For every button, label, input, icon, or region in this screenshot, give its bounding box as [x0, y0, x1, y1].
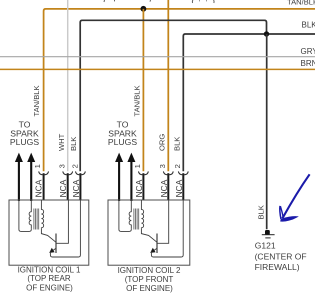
- coil1 core: [34, 209, 39, 230]
- svg-text:3: 3: [57, 164, 66, 168]
- annotation blue arrow: [280, 174, 310, 221]
- svg-text:1: 1: [133, 164, 142, 168]
- svg-text:(TOP FRONT: (TOP FRONT: [125, 275, 174, 284]
- connector pin stub coil2 pin1: [142, 173, 144, 200]
- connector symbol coil2 pin1: [139, 171, 149, 174]
- svg-text:FIREWALL): FIREWALL): [255, 262, 300, 272]
- svg-text:BLK: BLK: [69, 137, 78, 151]
- svg-text:IGNITION COIL 2: IGNITION COIL 2: [118, 266, 181, 275]
- node junction dot BLK: [264, 31, 269, 36]
- connector pin stub coil1 pin3: [67, 173, 69, 200]
- svg-text:NCA: NCA: [174, 179, 184, 197]
- connector pin stub coil1 pin2: [79, 173, 81, 200]
- coil2 transistor Q2 collector wire: [141, 229, 157, 243]
- svg-text:NCA: NCA: [34, 179, 44, 197]
- connector symbol coil2 pin2: [178, 171, 188, 174]
- node junction dot on TAN/BLK bus: [141, 6, 147, 12]
- wire BLK from coil 2 pin 2 joining junction, to right edge: [183, 34, 315, 171]
- coil1 transistor Q1 bar: [55, 234, 57, 254]
- connector symbol coil2 pin3: [163, 171, 173, 174]
- svg-text:PLUGS: PLUGS: [108, 137, 137, 147]
- svg-text:TAN/BLK: TAN/BLK: [32, 85, 41, 116]
- connector pin stub coil1 pin1: [43, 173, 45, 200]
- coil1 transistor Q1 emitter with arrow: [52, 248, 56, 251]
- svg-text:TAN/BLK: TAN/BLK: [132, 85, 141, 116]
- svg-text:IGNITION COIL 1: IGNITION COIL 1: [18, 265, 81, 274]
- svg-text:BLK: BLK: [172, 137, 181, 151]
- coil1 secondary winding: [29, 200, 31, 229]
- coil2 transistor Q2 base wire to pin3: [157, 200, 169, 243]
- svg-text:NCA: NCA: [71, 179, 81, 197]
- svg-text:TAN/BLK: TAN/BLK: [287, 0, 315, 6]
- svg-text:BRN: BRN: [301, 59, 316, 68]
- coil2 transistor Q2 bar: [156, 234, 158, 254]
- wire BLK vertical down to ground G121: [266, 34, 268, 229]
- svg-text:2: 2: [70, 164, 79, 168]
- coil1 emitter wire to pin2: [50, 200, 80, 257]
- coil1 transistor Q1 collector wire: [41, 229, 56, 243]
- coil2 secondary winding: [129, 200, 131, 229]
- svg-text:NCA: NCA: [134, 179, 144, 197]
- coil2 secondary lead wire (left, to spark arrows): [119, 200, 131, 231]
- coil1 transistor Q1 base wire to pin3: [56, 200, 68, 243]
- coil1 primary winding: [41, 200, 43, 229]
- coil1 secondary lead wire (left, to spark arrows): [19, 200, 31, 231]
- clipped text remnants at top edge: [104, 0, 214, 3]
- coil2 core: [134, 209, 139, 230]
- wire BLK from coil 1 pin 2 to right bus: [80, 20, 266, 171]
- svg-text:3: 3: [158, 164, 167, 168]
- ground G121 symbol: [265, 230, 270, 235]
- svg-text:GRY: GRY: [301, 47, 316, 56]
- connector symbol coil1 pin2: [76, 171, 86, 174]
- wire TAN/BLK drop to coil 2 pin 1: [142, 9, 144, 171]
- coil2 emitter wire to pin2: [151, 200, 183, 257]
- coil2 primary winding: [141, 200, 143, 229]
- spark plug arrow 1 (coil 1): [15, 153, 23, 201]
- svg-text:(TOP REAR: (TOP REAR: [27, 274, 70, 283]
- connector pin stub coil2 pin2: [182, 173, 184, 200]
- svg-text:NCA: NCA: [58, 179, 68, 197]
- svg-text:OF ENGINE): OF ENGINE): [126, 284, 173, 293]
- svg-text:2: 2: [173, 164, 182, 168]
- ignition coil 2 box: [108, 200, 190, 265]
- coil2 transistor Q2 emitter with arrow: [153, 248, 157, 251]
- svg-text:G121: G121: [255, 240, 276, 250]
- svg-text:1: 1: [33, 164, 42, 168]
- connector symbol coil1 pin3: [63, 171, 73, 174]
- svg-text:BLK: BLK: [302, 21, 316, 30]
- svg-text:(CENTER OF: (CENTER OF: [255, 252, 307, 262]
- ignition coil 1 box: [9, 200, 89, 265]
- svg-text:ORG: ORG: [157, 134, 166, 151]
- svg-text:WHT: WHT: [57, 133, 66, 151]
- svg-text:BLK: BLK: [256, 205, 265, 219]
- wire GRY bus: [0, 56, 315, 58]
- svg-text:PLUGS: PLUGS: [10, 137, 39, 147]
- wire TAN/BLK bus (orange, top): [44, 9, 315, 171]
- spark plug arrow 2 (coil 2): [127, 153, 135, 201]
- connector pin stub coil2 pin3: [167, 173, 169, 200]
- wire WHT vertical to coil 1 pin 3: [67, 0, 69, 171]
- svg-text:NCA: NCA: [159, 179, 169, 197]
- svg-text:OF ENGINE): OF ENGINE): [26, 283, 73, 292]
- wire ORG vertical to coil 2 pin 3: [167, 0, 169, 171]
- spark plug arrow 1 (coil 2): [115, 153, 123, 201]
- wire BRN bus: [0, 68, 315, 70]
- connector symbol coil1 pin1: [39, 171, 49, 174]
- spark plug arrow 2 (coil 1): [27, 153, 35, 201]
